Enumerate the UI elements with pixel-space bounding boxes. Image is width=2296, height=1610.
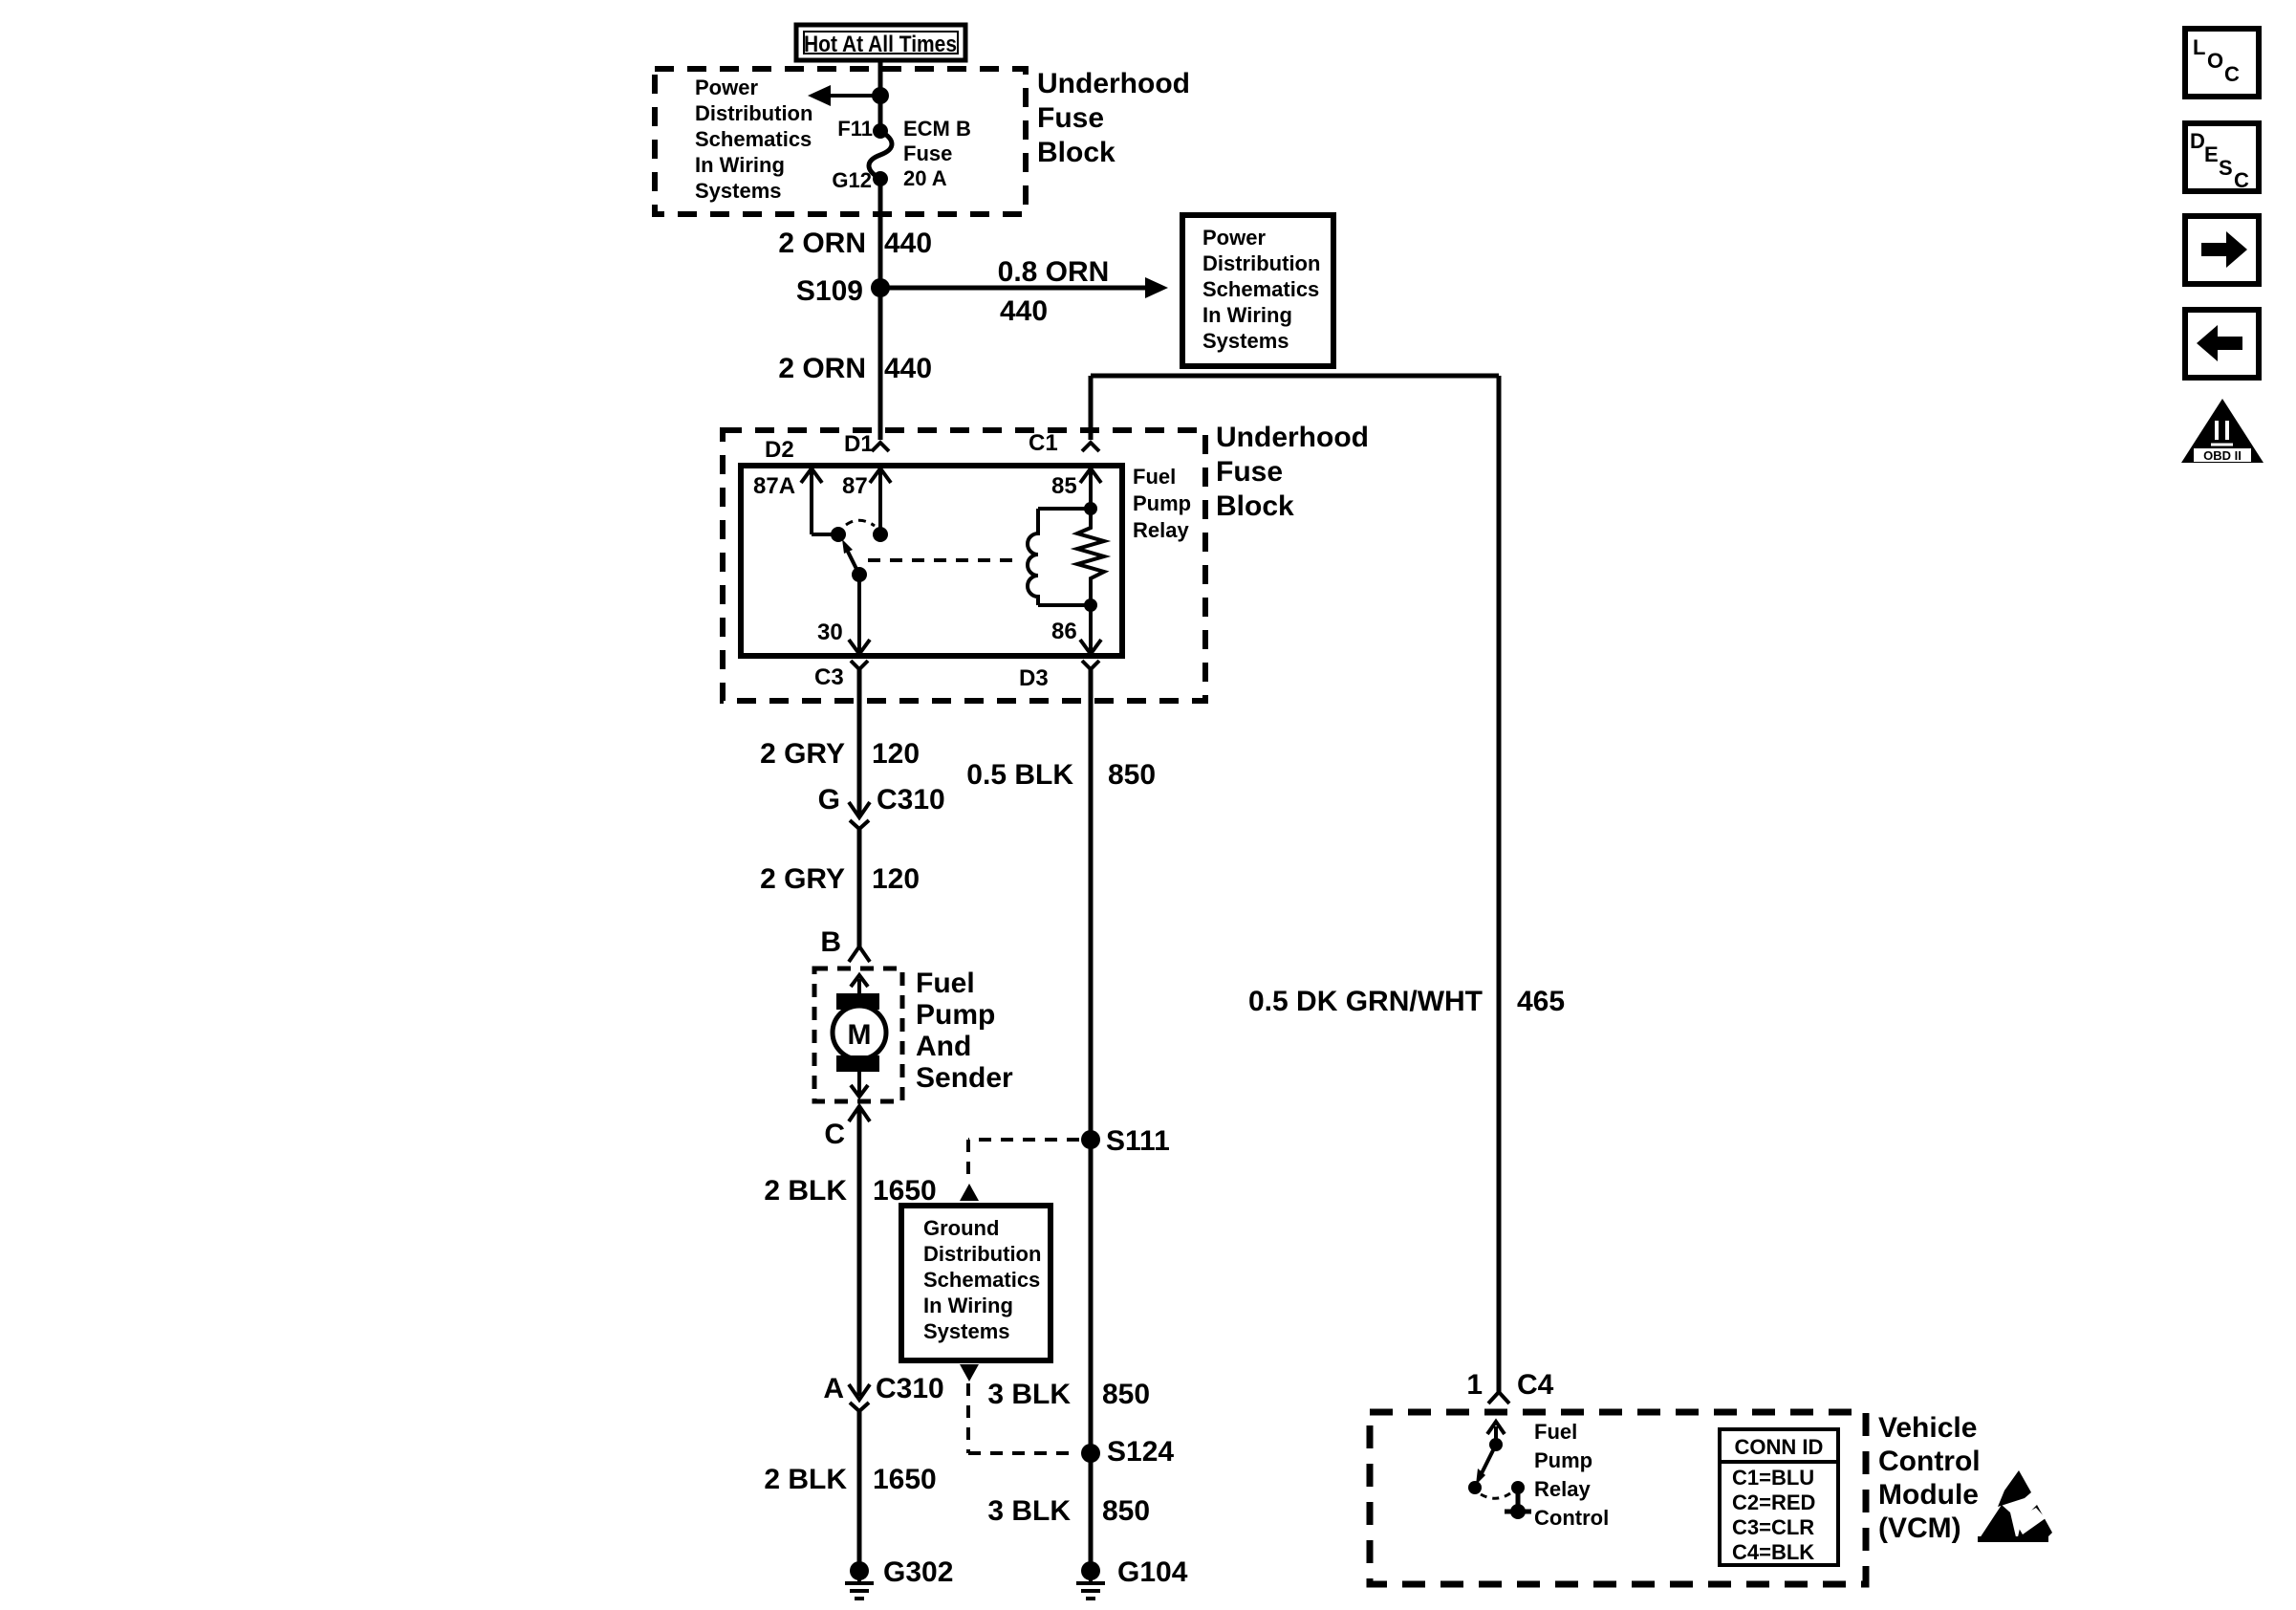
svg-text:Pump: Pump bbox=[1133, 491, 1191, 515]
svg-text:20 A: 20 A bbox=[903, 166, 947, 190]
svg-text:465: 465 bbox=[1517, 986, 1565, 1017]
svg-text:C310: C310 bbox=[876, 1373, 944, 1404]
svg-text:Sender: Sender bbox=[916, 1062, 1013, 1094]
svg-text:C4: C4 bbox=[1517, 1369, 1554, 1401]
svg-text:Power: Power bbox=[1202, 226, 1266, 250]
svg-text:440: 440 bbox=[884, 228, 932, 259]
svg-text:87: 87 bbox=[842, 473, 868, 499]
svg-text:Pump: Pump bbox=[1534, 1448, 1592, 1472]
svg-text:Fuse: Fuse bbox=[1216, 456, 1283, 488]
svg-text:Distribution: Distribution bbox=[1202, 251, 1320, 275]
svg-text:Pump: Pump bbox=[916, 999, 995, 1031]
svg-text:2 ORN: 2 ORN bbox=[778, 353, 866, 384]
svg-text:Block: Block bbox=[1037, 137, 1116, 168]
svg-text:2 GRY: 2 GRY bbox=[760, 863, 845, 895]
svg-text:2 ORN: 2 ORN bbox=[778, 228, 866, 259]
svg-text:C3=CLR: C3=CLR bbox=[1732, 1515, 1814, 1539]
svg-text:1650: 1650 bbox=[873, 1464, 937, 1495]
svg-text:Systems: Systems bbox=[923, 1319, 1010, 1343]
svg-text:1: 1 bbox=[1466, 1369, 1483, 1401]
svg-text:Systems: Systems bbox=[1202, 329, 1289, 353]
svg-text:C3: C3 bbox=[814, 664, 844, 690]
svg-text:ECM B: ECM B bbox=[903, 117, 971, 141]
svg-text:1650: 1650 bbox=[873, 1175, 937, 1207]
svg-text:0.5 BLK: 0.5 BLK bbox=[966, 759, 1073, 791]
svg-text:D1: D1 bbox=[844, 431, 874, 457]
svg-text:C: C bbox=[824, 1119, 845, 1150]
svg-text:E: E bbox=[2204, 142, 2219, 166]
svg-text:120: 120 bbox=[872, 738, 920, 770]
svg-text:C310: C310 bbox=[877, 784, 945, 816]
svg-text:0.8 ORN: 0.8 ORN bbox=[998, 256, 1110, 288]
svg-text:Module: Module bbox=[1878, 1479, 1979, 1511]
svg-text:850: 850 bbox=[1108, 759, 1156, 791]
svg-text:C1: C1 bbox=[1029, 430, 1058, 456]
svg-text:In Wiring: In Wiring bbox=[1202, 303, 1292, 327]
svg-text:87A: 87A bbox=[753, 473, 795, 499]
svg-text:C2=RED: C2=RED bbox=[1732, 1490, 1815, 1514]
svg-text:3 BLK: 3 BLK bbox=[987, 1379, 1071, 1410]
svg-text:Block: Block bbox=[1216, 490, 1294, 522]
svg-text:B: B bbox=[820, 926, 841, 958]
svg-text:3 BLK: 3 BLK bbox=[987, 1495, 1071, 1527]
svg-text:C4=BLK: C4=BLK bbox=[1732, 1540, 1814, 1564]
svg-text:Relay: Relay bbox=[1133, 518, 1189, 542]
svg-text:Underhood: Underhood bbox=[1216, 422, 1369, 453]
svg-text:A: A bbox=[823, 1373, 844, 1404]
svg-text:2 BLK: 2 BLK bbox=[764, 1175, 847, 1207]
svg-text:O: O bbox=[2207, 49, 2223, 73]
svg-text:And: And bbox=[916, 1031, 971, 1062]
svg-text:C1=BLU: C1=BLU bbox=[1732, 1466, 1814, 1490]
svg-text:M: M bbox=[848, 1019, 872, 1051]
svg-text:Vehicle: Vehicle bbox=[1878, 1412, 1977, 1444]
svg-text:Control: Control bbox=[1534, 1506, 1609, 1530]
svg-text:D2: D2 bbox=[765, 437, 794, 463]
svg-text:Fuel: Fuel bbox=[916, 968, 975, 999]
svg-text:D: D bbox=[2190, 129, 2205, 153]
svg-text:Fuse: Fuse bbox=[1037, 102, 1104, 134]
svg-text:Systems: Systems bbox=[695, 179, 782, 203]
svg-text:C: C bbox=[2234, 168, 2249, 192]
svg-text:CONN ID: CONN ID bbox=[1735, 1435, 1824, 1459]
svg-text:S: S bbox=[2219, 156, 2233, 180]
svg-text:Schematics: Schematics bbox=[923, 1268, 1040, 1292]
svg-text:440: 440 bbox=[884, 353, 932, 384]
svg-text:Fuel: Fuel bbox=[1534, 1420, 1577, 1444]
svg-text:850: 850 bbox=[1102, 1495, 1150, 1527]
svg-text:Fuse: Fuse bbox=[903, 141, 952, 165]
svg-text:C: C bbox=[2224, 62, 2240, 86]
svg-text:OBD II: OBD II bbox=[2203, 448, 2242, 463]
svg-text:S124: S124 bbox=[1107, 1436, 1174, 1468]
svg-text:2 GRY: 2 GRY bbox=[760, 738, 845, 770]
svg-text:Control: Control bbox=[1878, 1446, 1981, 1477]
svg-text:Fuel: Fuel bbox=[1133, 465, 1176, 489]
svg-text:Underhood: Underhood bbox=[1037, 68, 1190, 99]
svg-text:L: L bbox=[2193, 35, 2205, 59]
svg-text:In Wiring: In Wiring bbox=[695, 153, 785, 177]
svg-text:Schematics: Schematics bbox=[695, 127, 812, 151]
svg-text:Distribution: Distribution bbox=[695, 101, 812, 125]
svg-text:Hot At All Times: Hot At All Times bbox=[804, 32, 957, 57]
svg-text:S109: S109 bbox=[796, 275, 863, 307]
svg-text:Distribution: Distribution bbox=[923, 1242, 1041, 1266]
svg-text:30: 30 bbox=[817, 620, 843, 645]
svg-text:G12: G12 bbox=[832, 168, 872, 192]
svg-text:G104: G104 bbox=[1117, 1556, 1188, 1588]
svg-text:F11: F11 bbox=[837, 117, 873, 141]
svg-text:G302: G302 bbox=[883, 1556, 953, 1588]
svg-text:2 BLK: 2 BLK bbox=[764, 1464, 847, 1495]
svg-text:(VCM): (VCM) bbox=[1878, 1512, 1961, 1544]
svg-text:120: 120 bbox=[872, 863, 920, 895]
svg-text:86: 86 bbox=[1051, 619, 1077, 644]
svg-text:85: 85 bbox=[1051, 473, 1077, 499]
svg-text:850: 850 bbox=[1102, 1379, 1150, 1410]
svg-text:In Wiring: In Wiring bbox=[923, 1294, 1013, 1317]
svg-text:Relay: Relay bbox=[1534, 1477, 1591, 1501]
svg-text:Schematics: Schematics bbox=[1202, 277, 1319, 301]
svg-text:D3: D3 bbox=[1019, 665, 1049, 691]
svg-text:S111: S111 bbox=[1106, 1125, 1170, 1157]
svg-text:Power: Power bbox=[695, 76, 758, 99]
svg-text:G: G bbox=[818, 784, 840, 816]
svg-text:Ground: Ground bbox=[923, 1216, 999, 1240]
svg-text:440: 440 bbox=[1000, 295, 1048, 327]
svg-text:0.5 DK GRN/WHT: 0.5 DK GRN/WHT bbox=[1248, 986, 1483, 1017]
